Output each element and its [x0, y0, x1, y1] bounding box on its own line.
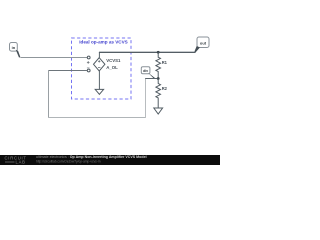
label + (control port) — [87, 61, 90, 64]
wire: out rail (light halo row) — [99, 51, 196, 53]
terminal circle: inverting (-) input — [87, 69, 90, 72]
resistor R1 — [156, 52, 168, 78]
flag in — [10, 43, 21, 58]
svg-text:http://circuitlab.com/c/e2xw7y: http://circuitlab.com/c/e2xw7y/op-amp-vc… — [36, 159, 101, 163]
wire: in to noninverting input — [21, 57, 88, 59]
svg-text:div: div — [143, 69, 148, 73]
footer bar — [0, 155, 220, 165]
svg-text:A_OL: A_OL — [106, 65, 118, 70]
ground (under VCVS) — [95, 71, 103, 94]
resistor R2 — [156, 79, 168, 109]
svg-text:out: out — [200, 41, 207, 46]
wire: feedback right vertical — [145, 78, 147, 117]
svg-text:in: in — [12, 45, 16, 50]
wire: out rail — [99, 52, 196, 54]
svg-text:Ideal op-amp as VCVS: Ideal op-amp as VCVS — [79, 39, 128, 44]
VCVS1 dependent source (diamond) — [94, 58, 122, 71]
flag div — [141, 67, 155, 79]
flag out — [194, 37, 209, 52]
svg-text:R2: R2 — [162, 86, 168, 91]
svg-text:VCVS1: VCVS1 — [106, 58, 121, 63]
label - (control port) — [87, 67, 90, 69]
wire: inverting input to feedback left run — [48, 70, 87, 72]
node: divider junction — [157, 77, 160, 80]
node: out junction — [157, 51, 160, 54]
wire: feedback left vertical — [48, 70, 50, 118]
annotation box (dashed): Ideal op-amp as VCVS — [72, 38, 132, 99]
terminal circle: noninverting (+) input — [87, 56, 90, 59]
wire: divider tap to node — [145, 78, 157, 80]
svg-text:R1: R1 — [162, 60, 168, 65]
wire: VCVS output up to out rail — [98, 53, 100, 58]
svg-text:LAB: LAB — [16, 160, 26, 165]
ground (under R2) — [154, 108, 163, 114]
wire: feedback bottom run — [48, 117, 146, 119]
